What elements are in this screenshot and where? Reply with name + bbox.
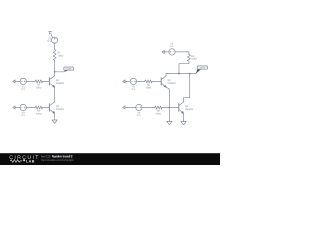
ground GND3 <box>181 122 186 125</box>
CircuitLab logo <box>9 155 40 164</box>
resistor R5 <box>145 80 153 83</box>
ground GND2 <box>167 121 172 124</box>
svg-text:2N3904: 2N3904 <box>185 108 194 111</box>
label R4 10k <box>191 55 197 61</box>
wire output rail <box>166 73 196 75</box>
svg-text:LAB: LAB <box>26 160 35 164</box>
svg-text:2N3904: 2N3904 <box>56 108 65 111</box>
svg-text:10kΩ: 10kΩ <box>36 112 42 115</box>
net arrow A4 (left arrow on V5) <box>162 50 164 53</box>
svg-text:10kΩ: 10kΩ <box>36 86 42 89</box>
wire V2 to R2 <box>54 43 56 49</box>
input arrow A2 <box>13 80 15 83</box>
wire R6 to node <box>162 107 169 109</box>
wire R1 to Q1 base <box>43 80 50 82</box>
wire R5 to Q3 base <box>152 80 161 82</box>
wire R4 to output rail (jog) <box>179 61 189 73</box>
resistor R1 <box>35 80 43 83</box>
label R6 10k <box>155 110 161 116</box>
flag Sortie2 <box>196 66 208 74</box>
wire node to Q4 base <box>169 107 178 109</box>
wire rail to Q4 collector (jog) <box>184 74 190 102</box>
wire V1 to R1 <box>26 80 35 82</box>
voltage source V5 <box>169 49 175 55</box>
svg-text:5 V: 5 V <box>21 114 25 117</box>
wire R3 to Q2 base <box>43 107 50 109</box>
wire R2 to Q1 collector <box>54 60 56 75</box>
wire Q4 emitter to ground <box>183 113 185 121</box>
resistor R4 <box>187 54 190 61</box>
transistor Q2 <box>49 102 54 114</box>
voltage source V2 <box>51 37 57 43</box>
wire arrow to V6 <box>125 107 136 109</box>
svg-text:2N3904: 2N3904 <box>56 82 65 85</box>
label Q4 2N3904 <box>185 105 194 111</box>
svg-text:10kΩ: 10kΩ <box>191 58 197 61</box>
wire Q3 emitter down <box>166 87 169 107</box>
svg-text:2N3904: 2N3904 <box>167 82 176 85</box>
label V1 5V <box>21 85 25 91</box>
wire V4 to R5 <box>137 80 145 82</box>
label V3 5V <box>21 111 25 117</box>
net arrow A1 (45-deg supply arrow on V2) <box>49 31 53 37</box>
resistor R3 <box>35 106 43 109</box>
label V6 5V <box>137 111 141 117</box>
wire V3 to R3 <box>26 107 35 109</box>
wire Q1 emitter to Q2 collector <box>54 87 56 102</box>
svg-text:5 V: 5 V <box>47 40 51 43</box>
svg-text:5 V: 5 V <box>21 88 25 91</box>
footer bar <box>0 153 220 165</box>
wire arrow to V4 <box>125 80 130 82</box>
label V4 5V <box>132 85 136 91</box>
transistor Q1 <box>49 76 54 88</box>
node junction rail-Q4 <box>189 73 191 75</box>
wire Q3 collector to rail <box>165 74 167 76</box>
voltage source V6 <box>136 104 142 110</box>
voltage source V4 <box>130 78 136 84</box>
svg-text:10kΩ: 10kΩ <box>58 55 64 58</box>
transistor Q4 <box>179 102 184 114</box>
voltage source V3 <box>20 104 26 110</box>
node junction out1 <box>54 71 56 73</box>
input arrow A5 <box>123 80 125 83</box>
resistor R6 <box>155 106 163 109</box>
label R5 10k <box>146 84 152 90</box>
wire arrow to V1 <box>15 80 20 82</box>
wire V5 to R4 <box>175 52 189 55</box>
label V5 5V <box>170 42 174 48</box>
caption title <box>41 155 73 159</box>
label Q3 2N3904 <box>167 79 176 85</box>
label R3 10k <box>36 110 42 116</box>
svg-text:5 V: 5 V <box>170 45 174 48</box>
node junction emitter-base-ground <box>169 107 171 109</box>
wire Q2 emitter to ground <box>54 113 56 120</box>
node junction rail-R4 <box>178 73 180 75</box>
wire arrow to V3 <box>15 107 20 109</box>
wire V6 to R6 <box>142 107 154 109</box>
wire node to ground <box>168 108 170 122</box>
label Q2 2N3904 <box>56 105 65 111</box>
voltage source V1 <box>20 78 26 84</box>
ground GND1 <box>52 120 57 123</box>
label R1 10k <box>36 84 42 90</box>
svg-text:10kΩ: 10kΩ <box>146 86 152 89</box>
transistor Q3 <box>161 76 166 88</box>
wire flag stub <box>55 71 65 73</box>
resistor R2 <box>53 50 56 61</box>
svg-text:5 V: 5 V <box>132 88 136 91</box>
svg-text:10kΩ: 10kΩ <box>155 112 161 115</box>
label R2 10k <box>58 52 64 58</box>
svg-text:http://circuitlab.com/c6hw5qv9: http://circuitlab.com/c6hw5qv9p84 <box>41 158 74 162</box>
svg-text:5 V: 5 V <box>137 114 141 117</box>
flag Sortie1 <box>64 67 74 72</box>
label V2 5V <box>47 37 51 43</box>
wire arrow to V5 <box>164 51 169 53</box>
input arrow A6 <box>123 106 125 109</box>
label Q1 2N3904 <box>56 79 65 85</box>
input arrow A3 <box>13 106 15 109</box>
